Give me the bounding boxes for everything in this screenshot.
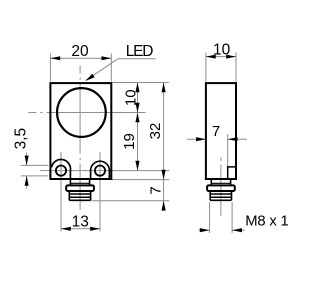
- svg-text:LED: LED: [126, 43, 154, 60]
- svg-text:10: 10: [123, 89, 140, 106]
- svg-text:32: 32: [147, 123, 164, 140]
- svg-text:19: 19: [121, 133, 138, 150]
- svg-text:13: 13: [72, 213, 89, 230]
- svg-text:20: 20: [71, 43, 89, 60]
- svg-text:7: 7: [147, 186, 164, 194]
- svg-text:M8 x 1: M8 x 1: [245, 214, 288, 230]
- svg-text:3,5: 3,5: [13, 128, 30, 150]
- svg-text:10: 10: [213, 42, 231, 59]
- svg-text:7: 7: [212, 123, 220, 140]
